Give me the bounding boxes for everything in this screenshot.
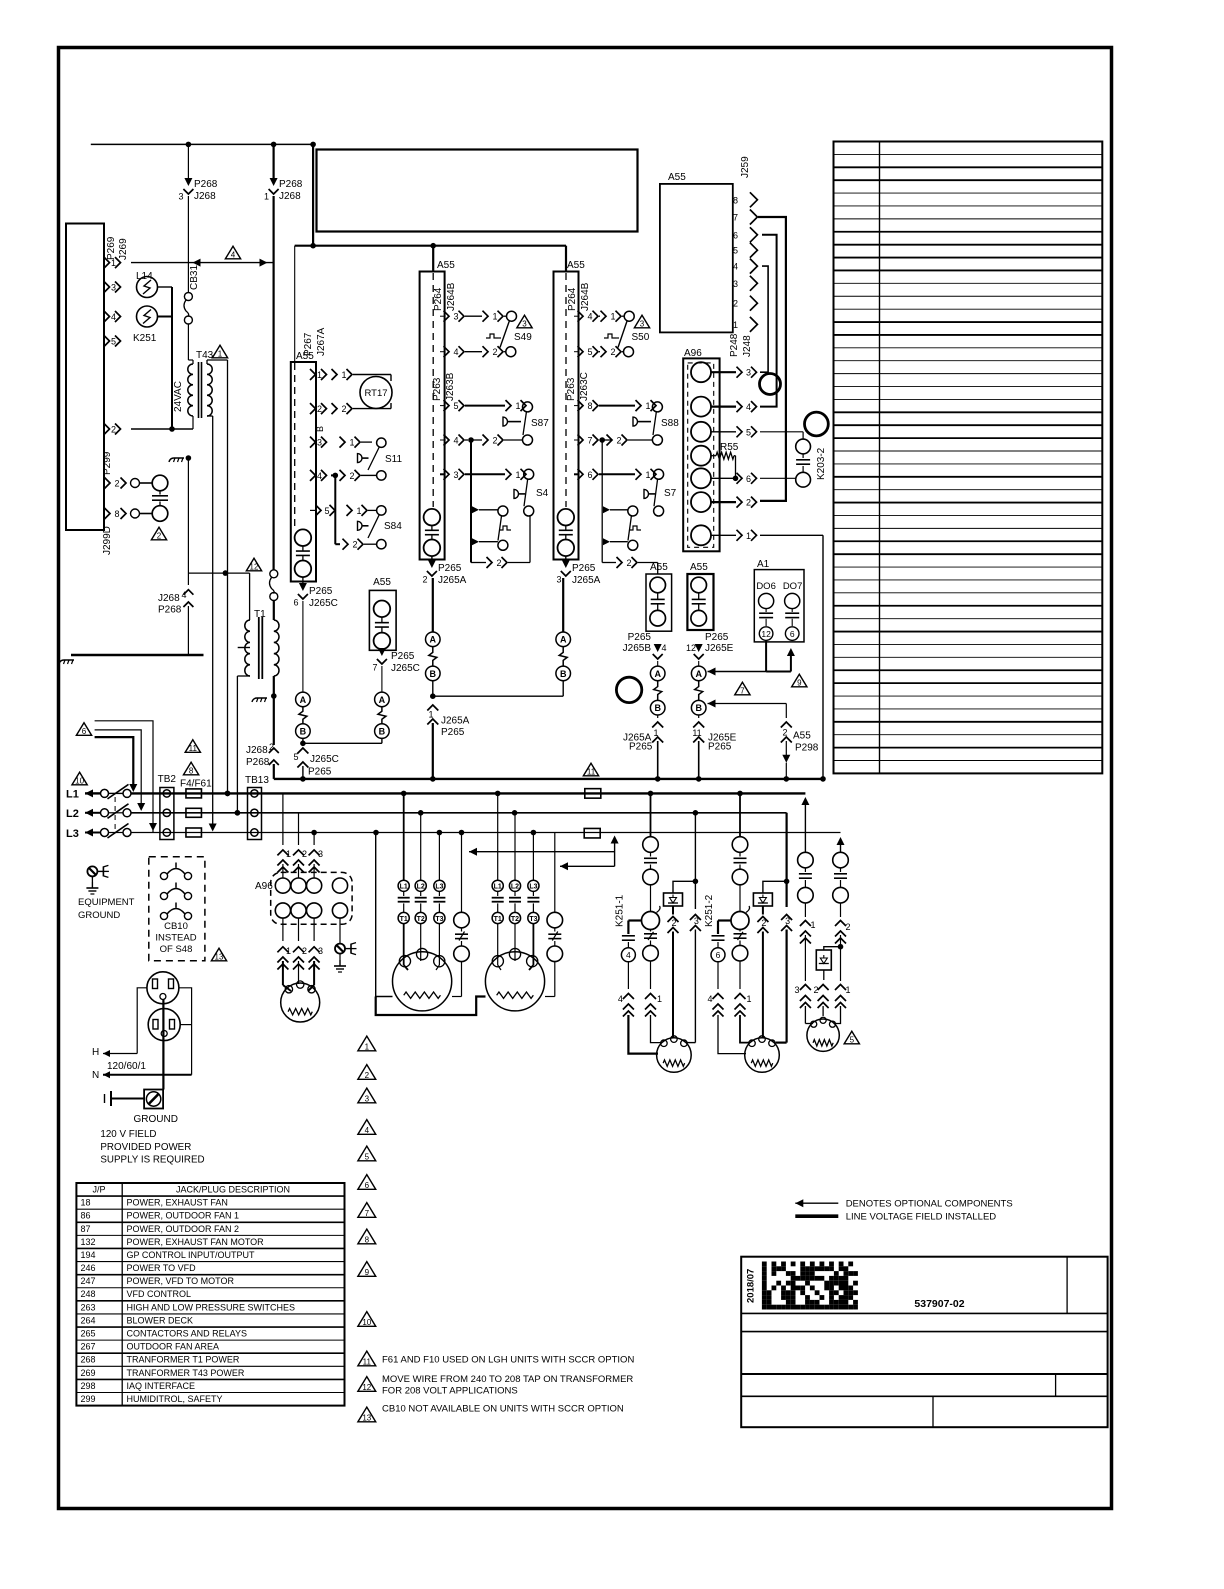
svg-text:GP CONTROL INPUT/OUTPUT: GP CONTROL INPUT/OUTPUT xyxy=(127,1250,256,1260)
note triangle 1 xyxy=(358,1036,376,1051)
svg-text:P265: P265 xyxy=(628,632,652,643)
svg-text:OF S48: OF S48 xyxy=(160,944,193,955)
svg-text:P265: P265 xyxy=(705,632,729,643)
motor outdoor fan 3 xyxy=(807,1019,839,1051)
svg-text:POWER, EXHAUST FAN: POWER, EXHAUST FAN xyxy=(127,1198,228,1208)
svg-text:1: 1 xyxy=(264,192,269,202)
connector P269 pin 3 xyxy=(104,282,110,293)
node A (x303) xyxy=(296,692,311,707)
svg-text:5: 5 xyxy=(850,1036,855,1045)
wire A55-2 feed xyxy=(565,246,567,272)
jack circle A96 xyxy=(691,492,711,512)
svg-text:B: B xyxy=(695,703,702,713)
switch disconnect xyxy=(101,829,109,837)
svg-text:4: 4 xyxy=(587,312,592,322)
svg-text:T2: T2 xyxy=(417,916,425,923)
svg-text:TRANFORMER T1 POWER: TRANFORMER T1 POWER xyxy=(127,1355,240,1365)
svg-text:K251: K251 xyxy=(133,333,157,344)
node power dots L3 xyxy=(311,830,317,836)
connector J263C pin 7 xyxy=(574,439,578,441)
svg-text:P267: P267 xyxy=(303,332,314,356)
connector J263B pin 4 xyxy=(440,439,444,441)
wire K251-2 links xyxy=(785,813,787,907)
svg-text:3: 3 xyxy=(365,1094,370,1103)
wire tap bus xyxy=(71,654,204,656)
wire latch drop b2 xyxy=(601,440,603,563)
flag triangle 9 xyxy=(792,674,807,687)
svg-text:P263: P263 xyxy=(432,377,443,401)
svg-text:S87: S87 xyxy=(531,418,549,429)
svg-text:B: B xyxy=(379,727,386,737)
svg-text:A: A xyxy=(654,669,661,679)
svg-text:P248: P248 xyxy=(729,333,740,357)
switch S49 xyxy=(507,311,517,321)
svg-text:PROVIDED POWER: PROVIDED POWER xyxy=(100,1142,191,1153)
thermistor RT17 xyxy=(360,377,392,409)
flag triangle 5 xyxy=(844,1031,859,1044)
wire A96 down2 xyxy=(298,918,300,941)
connector P248 pin 1 xyxy=(711,534,736,536)
ground stub xyxy=(110,1091,112,1106)
connector P265 pin 7 (J265C) xyxy=(378,648,386,656)
svg-text:1: 1 xyxy=(317,370,322,380)
connector P267 pin 3 xyxy=(310,437,316,448)
svg-text:POWER, OUTDOOR FAN 2: POWER, OUTDOOR FAN 2 xyxy=(127,1224,240,1234)
flag triangle 1 xyxy=(212,345,227,358)
svg-text:6: 6 xyxy=(82,727,87,736)
svg-text:263: 263 xyxy=(81,1302,96,1312)
node B (x382) xyxy=(375,724,390,739)
svg-text:L1: L1 xyxy=(494,884,502,891)
contact L1/T1 B xyxy=(497,793,499,880)
flag triangle 2 xyxy=(151,527,166,540)
svg-text:L2: L2 xyxy=(417,884,425,891)
svg-text:S4: S4 xyxy=(536,488,549,499)
svg-text:2: 2 xyxy=(746,498,751,508)
connector P267 pin 5 xyxy=(310,509,316,511)
svg-text:J248: J248 xyxy=(742,335,753,357)
svg-text:7: 7 xyxy=(733,213,738,223)
motor supply fan 1 xyxy=(393,952,452,1011)
svg-text:L2: L2 xyxy=(66,808,79,820)
svg-text:TRANFORMER T43 POWER: TRANFORMER T43 POWER xyxy=(127,1368,245,1378)
svg-text:GROUND: GROUND xyxy=(78,910,120,921)
svg-text:VFD CONTROL: VFD CONTROL xyxy=(127,1289,192,1299)
wire J259-7 to P248-2 xyxy=(758,217,786,501)
wire zig (x563) xyxy=(559,647,567,667)
thick ring K203 xyxy=(805,412,829,436)
wire zig (x303) xyxy=(299,707,307,724)
wire zig (x382) xyxy=(378,707,386,724)
svg-text:3: 3 xyxy=(522,320,527,329)
contact A96 bottom xyxy=(307,903,322,918)
jack circles b1 xyxy=(424,509,441,526)
connector P299 pin 2 xyxy=(105,478,111,489)
svg-text:POWER, VFD TO MOTOR: POWER, VFD TO MOTOR xyxy=(127,1276,235,1286)
contact L2/T2 A xyxy=(420,813,422,880)
wire L3 end column xyxy=(840,833,842,841)
wire A96 col3 xyxy=(313,833,315,846)
note triangle 7 xyxy=(358,1203,376,1218)
wire 573 link xyxy=(188,572,249,574)
barcode xyxy=(762,1262,767,1267)
connector P248 pin 2 xyxy=(711,501,736,503)
svg-text:B: B xyxy=(654,703,661,713)
ground tap xyxy=(59,660,74,664)
svg-text:8: 8 xyxy=(114,509,119,519)
svg-text:S7: S7 xyxy=(664,488,677,499)
svg-text:1: 1 xyxy=(515,401,520,411)
svg-text:10: 10 xyxy=(362,1318,371,1327)
svg-text:8: 8 xyxy=(365,1235,370,1244)
note triangle 6 xyxy=(358,1175,376,1190)
column x805 xyxy=(798,852,814,868)
wire T-to-motorA xyxy=(403,924,405,965)
svg-text:L3: L3 xyxy=(435,884,443,891)
svg-text:1: 1 xyxy=(657,994,662,1004)
svg-text:K203-2: K203-2 xyxy=(816,447,827,480)
svg-text:1: 1 xyxy=(365,1042,370,1051)
wire K251-1 links xyxy=(694,813,696,909)
svg-text:HUMIDITROL, SAFETY: HUMIDITROL, SAFETY xyxy=(127,1394,223,1404)
svg-text:T1: T1 xyxy=(494,916,502,923)
svg-text:GROUND: GROUND xyxy=(134,1114,178,1125)
svg-text:120 V FIELD: 120 V FIELD xyxy=(100,1129,156,1140)
connector P267 pin 2b xyxy=(343,539,349,550)
svg-text:J268: J268 xyxy=(246,745,268,756)
svg-text:2: 2 xyxy=(352,540,357,550)
note triangle 10 xyxy=(358,1312,376,1327)
svg-text:J/P: J/P xyxy=(92,1184,105,1194)
svg-text:P269: P269 xyxy=(106,236,117,260)
connector P299 pin 8 xyxy=(105,508,111,519)
svg-text:P268: P268 xyxy=(246,757,270,768)
svg-text:87: 87 xyxy=(81,1224,91,1234)
wire control bus 2 xyxy=(295,245,566,247)
latch relay b2 xyxy=(603,506,610,513)
svg-text:R55: R55 xyxy=(720,442,739,453)
svg-text:P299: P299 xyxy=(102,451,113,475)
svg-text:4: 4 xyxy=(453,347,458,357)
note triangle 11 xyxy=(358,1351,376,1366)
svg-text:P298: P298 xyxy=(795,743,819,754)
svg-text:194: 194 xyxy=(81,1250,96,1260)
svg-text:7: 7 xyxy=(587,436,592,446)
jack circle A96 xyxy=(691,397,711,417)
jack circles b2 xyxy=(558,509,575,526)
svg-text:OUTDOOR FAN AREA: OUTDOOR FAN AREA xyxy=(127,1342,220,1352)
node bus2 junctions xyxy=(310,243,316,249)
svg-text:246: 246 xyxy=(81,1263,96,1273)
wire optional feeds xyxy=(95,721,153,833)
svg-text:120/60/1: 120/60/1 xyxy=(107,1061,146,1072)
svg-text:3: 3 xyxy=(694,916,699,926)
connector P265 pin 12 (J265E) xyxy=(695,644,703,652)
switch S7 xyxy=(654,469,664,479)
svg-text:11: 11 xyxy=(363,1357,372,1366)
svg-text:P265: P265 xyxy=(438,563,462,574)
thick ring P248 xyxy=(760,374,781,395)
node bus dots xyxy=(300,776,306,782)
wire plug ground xyxy=(162,1000,164,1090)
wire B join (x433) xyxy=(432,681,434,697)
svg-text:13: 13 xyxy=(215,953,224,962)
wire P248-5 to K203 xyxy=(760,431,803,433)
contact A96 bottom xyxy=(275,903,290,918)
contact A96 top xyxy=(291,878,306,893)
svg-text:P263: P263 xyxy=(566,377,577,401)
svg-text:2: 2 xyxy=(626,558,631,568)
svg-text:S11: S11 xyxy=(385,454,402,465)
svg-text:J265A: J265A xyxy=(441,716,470,727)
node A (x433) xyxy=(426,632,441,647)
ground box xyxy=(144,1090,163,1109)
wire latch drop b1 xyxy=(470,440,472,563)
svg-text:1: 1 xyxy=(111,258,116,268)
svg-text:CONTACTORS AND RELAYS: CONTACTORS AND RELAYS xyxy=(127,1329,248,1339)
svg-text:1: 1 xyxy=(810,920,815,930)
svg-text:J269: J269 xyxy=(118,238,129,260)
svg-text:A55: A55 xyxy=(650,562,668,573)
node A (x563) xyxy=(556,632,571,647)
equipment ground symbol xyxy=(87,866,97,876)
flag triangle 3b xyxy=(634,315,649,328)
border frame xyxy=(59,48,1112,1509)
connector chevrons 3-2-1 xyxy=(800,985,811,991)
svg-text:DO7: DO7 xyxy=(783,581,803,592)
svg-text:LINE VOLTAGE FIELD INSTALLED: LINE VOLTAGE FIELD INSTALLED xyxy=(846,1212,997,1223)
svg-text:2: 2 xyxy=(317,404,322,414)
svg-text:86: 86 xyxy=(81,1211,91,1221)
motor outdoor fan 1 xyxy=(657,1038,692,1073)
node power dots L2 xyxy=(235,810,241,816)
svg-text:EQUIPMENT: EQUIPMENT xyxy=(78,897,135,908)
connector P265 pin 6 (J265C) xyxy=(302,577,304,585)
aux column B xyxy=(554,833,556,913)
svg-text:DENOTES OPTIONAL COMPONENTS: DENOTES OPTIONAL COMPONENTS xyxy=(846,1199,1013,1210)
optional arrow A xyxy=(469,848,477,856)
contact A96 top xyxy=(275,878,290,893)
svg-text:SUPPLY IS REQUIRED: SUPPLY IS REQUIRED xyxy=(100,1155,204,1166)
svg-text:TB2: TB2 xyxy=(158,774,177,785)
svg-text:J263B: J263B xyxy=(445,372,456,401)
latch relay b1 xyxy=(472,506,479,513)
svg-text:S50: S50 xyxy=(632,332,650,343)
svg-text:POWER, EXHAUST FAN MOTOR: POWER, EXHAUST FAN MOTOR xyxy=(127,1237,265,1247)
svg-text:3: 3 xyxy=(453,312,458,322)
wire L1 end column xyxy=(804,793,806,800)
wire L2 xyxy=(85,809,93,817)
svg-text:7: 7 xyxy=(365,1209,370,1218)
fuse L3 field xyxy=(584,828,600,838)
wire A96 down3 xyxy=(313,918,315,941)
svg-text:P265: P265 xyxy=(572,563,596,574)
svg-text:2018/07: 2018/07 xyxy=(746,1269,757,1303)
wire to motor3 xyxy=(804,1006,806,1024)
svg-text:7: 7 xyxy=(372,663,377,673)
svg-text:9: 9 xyxy=(365,1268,370,1277)
wire A96 col2 xyxy=(298,813,300,845)
note triangle 13 xyxy=(358,1407,376,1422)
svg-text:INSTEAD: INSTEAD xyxy=(155,933,196,944)
wire top 24V bus xyxy=(91,143,313,145)
svg-text:3: 3 xyxy=(640,320,645,329)
relay K251 coil xyxy=(137,306,158,327)
svg-text:L3: L3 xyxy=(529,884,537,891)
wire A96 col1 xyxy=(282,793,284,845)
svg-text:F4/F61: F4/F61 xyxy=(180,779,212,790)
capacitor C-hum xyxy=(152,475,168,491)
wire S84 latch xyxy=(334,475,336,544)
ground A96 col4 xyxy=(339,918,341,943)
wire J268-4 drop xyxy=(187,458,189,585)
svg-text:A55: A55 xyxy=(668,172,686,183)
connector P264 pin 4 xyxy=(440,351,444,353)
note triangle 5 xyxy=(358,1146,376,1161)
flag triangle 11b xyxy=(583,763,598,776)
svg-text:2: 2 xyxy=(813,985,818,995)
motor exhaust fan xyxy=(281,983,320,1022)
svg-text:J259: J259 xyxy=(740,156,751,178)
svg-text:2: 2 xyxy=(492,436,497,446)
svg-text:B: B xyxy=(560,669,567,679)
wire mid drop arrow xyxy=(152,825,154,827)
connector P269 pin 1 xyxy=(104,257,110,268)
switch S84 xyxy=(377,506,386,515)
svg-text:2: 2 xyxy=(341,404,346,414)
svg-text:J268: J268 xyxy=(279,191,301,202)
svg-text:5: 5 xyxy=(365,1152,370,1161)
switch disconnect xyxy=(101,809,109,817)
svg-text:2: 2 xyxy=(761,918,766,928)
svg-text:265: 265 xyxy=(81,1329,96,1339)
flag triangle 11a xyxy=(185,740,200,753)
wire zig (x699) xyxy=(695,681,703,701)
connector P269 pin 4 xyxy=(104,311,110,322)
svg-text:P265: P265 xyxy=(708,742,732,753)
title block rows xyxy=(741,1312,1107,1314)
svg-text:7: 7 xyxy=(740,687,745,696)
svg-text:J265E: J265E xyxy=(705,643,734,654)
svg-text:CB10 NOT AVAILABLE ON UNITS WI: CB10 NOT AVAILABLE ON UNITS WITH SCCR OP… xyxy=(382,1404,624,1415)
svg-text:L2: L2 xyxy=(511,884,519,891)
svg-text:24VAC: 24VAC xyxy=(173,381,184,412)
connector J263C pin 6 xyxy=(574,473,578,475)
svg-text:1: 1 xyxy=(286,849,291,859)
wire T43 sec to L3 xyxy=(212,416,214,826)
svg-text:11: 11 xyxy=(587,768,596,777)
svg-text:1: 1 xyxy=(645,470,650,480)
ground at T43 xyxy=(186,455,192,461)
node B (x303) xyxy=(296,724,311,739)
svg-text:6: 6 xyxy=(790,629,795,639)
svg-text:P265: P265 xyxy=(629,742,653,753)
relay K251-1 branch xyxy=(650,793,652,836)
svg-text:POWER, OUTDOOR FAN 1: POWER, OUTDOOR FAN 1 xyxy=(127,1211,240,1221)
connector P268/J268 pin 1 xyxy=(270,178,278,186)
blank label rectangle xyxy=(317,150,638,232)
svg-text:6: 6 xyxy=(716,950,721,960)
contact L3/T3 A xyxy=(438,833,440,881)
svg-text:BLOWER DECK: BLOWER DECK xyxy=(127,1315,194,1325)
svg-text:11: 11 xyxy=(692,728,701,738)
linkage xyxy=(114,797,116,831)
node power dots L1 xyxy=(225,791,231,797)
contact L2/T2 B xyxy=(514,813,516,880)
relay K251-2 branch xyxy=(739,793,741,836)
flag triangle 4 xyxy=(225,246,240,259)
svg-text:N: N xyxy=(92,1070,99,1081)
svg-text:2: 2 xyxy=(733,299,738,309)
switch disconnect xyxy=(101,789,109,797)
svg-text:S88: S88 xyxy=(661,418,679,429)
connector P265 pin 4 (J265B) xyxy=(654,644,662,652)
note triangle 4 xyxy=(358,1120,376,1135)
svg-text:298: 298 xyxy=(81,1381,96,1391)
svg-text:2: 2 xyxy=(845,922,850,932)
breaker CB-T1 xyxy=(270,570,278,578)
receptacle lower xyxy=(148,1009,180,1041)
wire K251-2 to motor xyxy=(718,1015,746,1054)
svg-text:JACK/PLUG DESCRIPTION: JACK/PLUG DESCRIPTION xyxy=(176,1184,290,1194)
svg-text:2: 2 xyxy=(349,471,354,481)
svg-text:2: 2 xyxy=(782,728,787,738)
svg-text:12: 12 xyxy=(686,643,696,653)
legend table rows xyxy=(834,153,1103,155)
svg-text:A1: A1 xyxy=(757,559,770,570)
svg-text:1: 1 xyxy=(286,946,291,956)
svg-text:A55: A55 xyxy=(690,562,708,573)
svg-text:132: 132 xyxy=(81,1237,96,1247)
svg-text:L1: L1 xyxy=(66,789,79,801)
svg-text:264: 264 xyxy=(81,1315,96,1325)
thick ring (x629) xyxy=(616,677,641,702)
svg-text:3: 3 xyxy=(111,283,116,293)
svg-text:4: 4 xyxy=(707,994,712,1004)
wire DO6-12 to node A xyxy=(765,640,767,671)
svg-text:J264B: J264B xyxy=(446,282,457,311)
connector J263B pin 5 xyxy=(440,405,444,407)
svg-text:P268: P268 xyxy=(194,179,218,190)
wire P268-1 drop xyxy=(273,144,275,179)
svg-text:RT17: RT17 xyxy=(364,388,387,399)
jack circles A55-P267 xyxy=(295,529,312,546)
diode box right xyxy=(824,947,841,950)
svg-text:J268: J268 xyxy=(194,191,216,202)
flag triangle 3a xyxy=(517,315,532,328)
switch S11 xyxy=(377,438,386,447)
connector P267 pin 2 xyxy=(310,403,316,414)
contact A96 bottom xyxy=(332,903,347,918)
svg-text:1: 1 xyxy=(349,438,354,448)
connector P264 pin 3 xyxy=(440,315,444,317)
switch S87 xyxy=(523,402,533,412)
wire plug loop xyxy=(137,988,147,1054)
svg-text:2: 2 xyxy=(302,849,307,859)
wire zig (x658) xyxy=(654,681,662,701)
note triangle 12 xyxy=(358,1377,376,1392)
svg-text:2: 2 xyxy=(114,479,119,489)
svg-text:268: 268 xyxy=(81,1355,96,1365)
flag triangle 8 xyxy=(183,762,198,775)
svg-text:P265: P265 xyxy=(308,767,332,778)
svg-text:1: 1 xyxy=(218,350,223,359)
svg-text:4: 4 xyxy=(733,262,738,272)
svg-text:A: A xyxy=(300,695,307,705)
wire A55-1 feed xyxy=(432,246,434,272)
svg-text:13: 13 xyxy=(362,1413,371,1422)
svg-text:10: 10 xyxy=(75,777,84,786)
